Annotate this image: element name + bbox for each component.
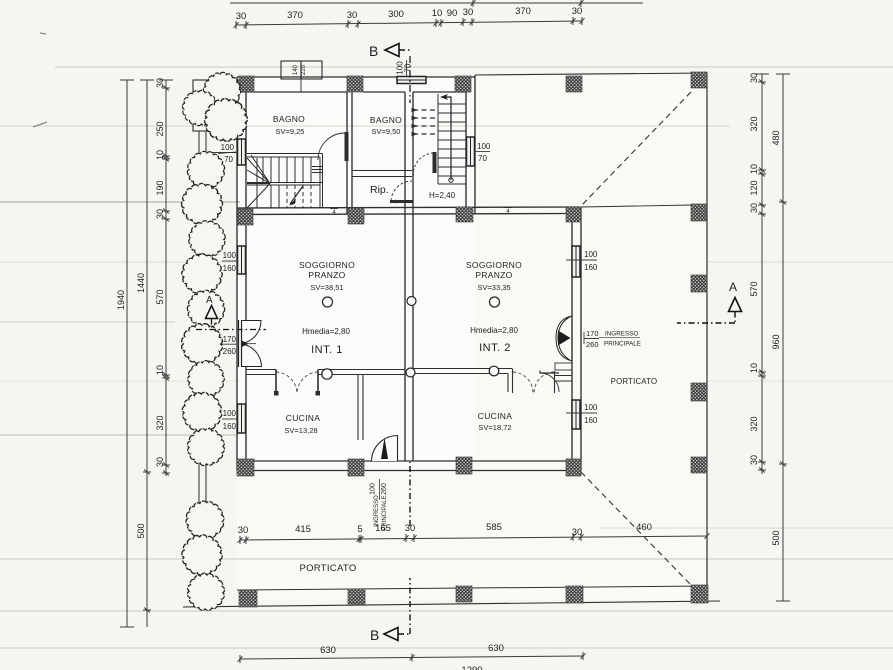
- svg-text:Hmedia=2,80: Hmedia=2,80: [302, 327, 350, 336]
- svg-text:140: 140: [293, 64, 299, 75]
- svg-text:5: 5: [357, 524, 362, 535]
- vestibule wall int1: [358, 375, 363, 441]
- cucina 2 double door dashed arcs: [513, 372, 554, 393]
- svg-text:10: 10: [155, 365, 165, 375]
- stair int1 treads lower flight: [271, 185, 279, 208]
- svg-text:160: 160: [584, 416, 598, 425]
- svg-text:300: 300: [388, 9, 404, 20]
- right outer dim line 480/960/500: [776, 74, 790, 601]
- stray mark top-left: [33, 33, 47, 127]
- svg-text:260: 260: [586, 340, 599, 349]
- svg-text:Hmedia=2,80: Hmedia=2,80: [470, 326, 518, 335]
- window 100/70 top wall (section B): [397, 77, 426, 84]
- svg-text:30: 30: [463, 7, 474, 18]
- svg-text:1290: 1290: [461, 665, 482, 670]
- svg-text:A: A: [206, 295, 213, 306]
- svg-text:100: 100: [370, 483, 377, 495]
- bottom exterior wall: [237, 461, 581, 471]
- svg-text:SV=9,50: SV=9,50: [372, 127, 401, 136]
- svg-text:120: 120: [749, 180, 759, 195]
- svg-text:70: 70: [478, 154, 487, 163]
- svg-text:160: 160: [223, 264, 237, 273]
- svg-text:30: 30: [572, 527, 583, 538]
- bagno2 door: [413, 153, 433, 176]
- svg-text:100: 100: [223, 409, 237, 418]
- svg-text:10: 10: [749, 363, 759, 373]
- svg-text:570: 570: [155, 289, 165, 304]
- svg-text:PRANZO: PRANZO: [308, 270, 345, 280]
- svg-text:30: 30: [155, 457, 165, 467]
- svg-text:100: 100: [223, 251, 237, 260]
- svg-text:BAGNO: BAGNO: [370, 115, 402, 125]
- left inner segmented dim line: [159, 80, 173, 476]
- svg-text:SV=33,35: SV=33,35: [477, 283, 510, 292]
- svg-text:260: 260: [381, 483, 388, 495]
- building paper background: [237, 77, 475, 470]
- svg-text:170: 170: [223, 335, 237, 344]
- stair int2 up arrow: [442, 97, 451, 180]
- svg-text:320: 320: [749, 116, 759, 131]
- stair int1 up arrow: [290, 186, 303, 204]
- int1 entrance door 170/260 left wall: [239, 320, 242, 367]
- svg-text:10: 10: [155, 150, 165, 160]
- svg-text:630: 630: [320, 645, 336, 656]
- svg-text:570: 570: [749, 281, 759, 296]
- left outer dim line 1940: [120, 80, 134, 627]
- svg-text:500: 500: [136, 523, 146, 538]
- stair block wall: [347, 92, 352, 214]
- cucina 1 north wall: [246, 370, 405, 375]
- svg-text:B: B: [370, 627, 379, 643]
- dashed diagonal south porticato: [581, 472, 691, 585]
- svg-text:30: 30: [155, 209, 165, 219]
- svg-text:SOGGIORNO: SOGGIORNO: [466, 260, 522, 270]
- svg-text:10: 10: [432, 8, 443, 19]
- pillars (hatched): [239, 76, 254, 92]
- porticato right wall: [706, 73, 708, 600]
- svg-text:H=2,40: H=2,40: [429, 191, 456, 200]
- window 100/160 cucina1 left wall: [238, 404, 246, 433]
- svg-text:190: 190: [155, 180, 165, 195]
- svg-text:SV=38,51: SV=38,51: [310, 283, 343, 292]
- svg-text:90: 90: [447, 8, 458, 19]
- svg-text:960: 960: [771, 334, 781, 349]
- window 100/160 soggiorno1 left wall: [238, 246, 246, 274]
- svg-text:SOGGIORNO: SOGGIORNO: [299, 260, 355, 270]
- svg-text:1940: 1940: [116, 290, 126, 310]
- svg-text:CUCINA: CUCINA: [286, 413, 320, 423]
- svg-text:320: 320: [155, 415, 165, 430]
- svg-text:PRINCIPALE: PRINCIPALE: [604, 341, 641, 348]
- scan artifact lines: [55, 66, 893, 68]
- 170/260 labels left door: [218, 343, 237, 345]
- svg-text:170: 170: [586, 329, 599, 338]
- svg-text:BAGNO: BAGNO: [273, 114, 305, 124]
- svg-text:260: 260: [223, 347, 237, 356]
- window 100/160 soggiorno2 right wall: [572, 246, 580, 277]
- svg-text:PORTICATO: PORTICATO: [611, 377, 657, 386]
- svg-text:10: 10: [749, 164, 759, 174]
- 170/260 labels: [584, 332, 599, 344]
- svg-text:INGRESSO: INGRESSO: [374, 495, 380, 527]
- apartment divider wall: [405, 92, 413, 461]
- svg-text:30: 30: [347, 10, 358, 21]
- window 100/70 stair block right wall: [467, 137, 475, 166]
- planter box top-left: [193, 80, 238, 131]
- svg-text:1440: 1440: [136, 273, 146, 293]
- svg-text:B: B: [369, 43, 378, 59]
- svg-text:30: 30: [238, 525, 249, 536]
- faint under-building scan lines: [0, 261, 893, 263]
- top segmented dimension line: [236, 21, 582, 25]
- svg-text:320: 320: [749, 416, 759, 431]
- svg-text:630: 630: [488, 643, 504, 654]
- svg-text:100: 100: [477, 142, 491, 151]
- window 100/70 bagno1 left wall: [238, 139, 246, 165]
- main entrance door 170/260 (bowtie) right wall: [556, 316, 572, 361]
- stair int2 dashed flight: [413, 110, 437, 134]
- bushes top-left cluster: [200, 69, 243, 112]
- svg-text:30: 30: [749, 203, 759, 213]
- svg-text:70: 70: [224, 155, 233, 164]
- bottom segmented dim line: [240, 536, 707, 540]
- svg-text:220: 220: [301, 64, 307, 75]
- stair int1 rail marks: [312, 167, 322, 173]
- svg-text:PRANZO: PRANZO: [475, 270, 512, 280]
- svg-text:SV=9,25: SV=9,25: [276, 127, 305, 136]
- stair int1 treads upper flight: [263, 157, 311, 183]
- right inner segmented dim line: [755, 74, 769, 474]
- svg-text:585: 585: [486, 522, 502, 533]
- svg-text:INT. 1: INT. 1: [311, 344, 343, 356]
- svg-text:30: 30: [749, 73, 759, 83]
- section B dash-dot through stair: [409, 56, 411, 103]
- bush column: [182, 146, 230, 194]
- cucina2 door arc: [540, 373, 559, 392]
- svg-text:480: 480: [771, 130, 781, 145]
- porticato north edge line: [475, 73, 707, 75]
- svg-text:INGRESSO: INGRESSO: [605, 331, 638, 338]
- cucina 1 door leaf stubs: [276, 370, 318, 395]
- svg-text:SV=18,72: SV=18,72: [478, 423, 511, 432]
- svg-text:SV=13,28: SV=13,28: [284, 426, 317, 435]
- stair int2 rails: [438, 94, 466, 184]
- svg-text:CUCINA: CUCINA: [478, 411, 512, 421]
- stair int1 outline: [247, 154, 323, 209]
- svg-text:INT. 2: INT. 2: [479, 342, 511, 354]
- rip door: [391, 181, 412, 201]
- roof window symbol above top wall: [281, 61, 301, 79]
- cucina 1 double door dashed arcs: [276, 372, 318, 394]
- svg-text:160: 160: [584, 263, 598, 272]
- svg-text:A: A: [729, 280, 737, 294]
- window 100/160 cucina2 right wall: [572, 400, 580, 429]
- left exterior wall: [237, 77, 246, 470]
- svg-text:30: 30: [155, 78, 165, 88]
- spina interior wall: [237, 207, 581, 215]
- cucina 2 north wall: [413, 369, 572, 394]
- threshold below main door: [555, 363, 572, 370]
- svg-text:30: 30: [749, 455, 759, 465]
- svg-text:PRINCIPALE: PRINCIPALE: [382, 495, 388, 530]
- dashed diagonal north porticato: [581, 92, 691, 206]
- top exterior wall: [237, 77, 475, 92]
- bottom overall dim line 630+630: [240, 656, 583, 659]
- stair int2 treads: [438, 104, 466, 176]
- svg-text:70: 70: [404, 63, 413, 72]
- left middle dim line 1440 / 500: [140, 80, 154, 627]
- lower bush column: [178, 493, 232, 547]
- svg-text:30: 30: [236, 11, 247, 22]
- bagno1 door: [318, 133, 345, 160]
- stair int1 winder fan: [247, 155, 270, 208]
- svg-text:160: 160: [223, 422, 237, 431]
- planter rails left: [199, 131, 206, 607]
- svg-text:500: 500: [771, 530, 781, 545]
- column circles: [323, 297, 333, 307]
- top overall dimension line: [230, 2, 643, 4]
- svg-text:Rip.: Rip.: [370, 184, 389, 196]
- porticato bottom wall: [237, 586, 707, 590]
- int1 entrance door (bottom wall): [372, 436, 398, 462]
- svg-text:30: 30: [572, 6, 583, 17]
- svg-text:100: 100: [584, 250, 598, 259]
- svg-text:100: 100: [221, 143, 235, 152]
- svg-text:370: 370: [287, 10, 303, 21]
- svg-text:370: 370: [515, 6, 531, 17]
- svg-text:PORTICATO: PORTICATO: [299, 563, 356, 574]
- svg-text:100: 100: [584, 403, 598, 412]
- svg-text:250: 250: [155, 121, 165, 136]
- svg-text:415: 415: [295, 524, 311, 535]
- top band right wall: [466, 75, 475, 214]
- rip north wall: [352, 171, 412, 177]
- right building wall: [572, 207, 581, 471]
